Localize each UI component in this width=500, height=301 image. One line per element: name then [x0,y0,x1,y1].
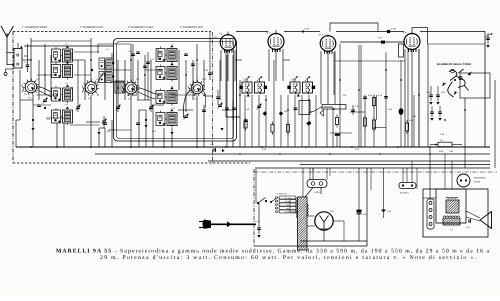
svg-text:L-9: L-9 [171,85,174,88]
svg-text:L-6: L-6 [106,64,109,67]
svg-text:C-35: C-35 [388,108,392,111]
svg-text:L-7: L-7 [171,43,174,46]
svg-text:C-10: C-10 [128,50,132,53]
svg-text:MOTORINO: MOTORINO [474,177,486,180]
svg-text:C-12: C-12 [150,58,154,61]
svg-text:C-30: C-30 [204,69,208,72]
svg-text:C-4: C-4 [47,118,50,121]
svg-text:V-1: V-1 [219,33,223,36]
svg-text:C-13: C-13 [202,78,206,81]
svg-text:R-1: R-1 [440,139,443,142]
svg-text:S.VOL.1 MN: S.VOL.1 MN [324,106,334,109]
svg-text:C-14: C-14 [255,220,259,223]
svg-text:FUSO: FUSO [314,191,320,194]
svg-text:R-16: R-16 [409,119,413,122]
svg-text:L-1: L-1 [65,43,68,46]
svg-text:C-45: C-45 [466,226,470,229]
svg-text:3° ELEMENTO FUSO: 3° ELEMENTO FUSO [128,26,153,29]
svg-text:C-31: C-31 [355,148,359,151]
svg-text:1° ELEMENTO POST.: 1° ELEMENTO POST. [22,26,48,29]
svg-text:2° ELEMENTO ACC.: 2° ELEMENTO ACC. [80,26,104,29]
svg-text:C-6: C-6 [96,78,99,81]
svg-text:V-2: V-2 [267,32,271,35]
svg-text:29 m. Potenza d'uscita: 3 watt: 29 m. Potenza d'uscita: 3 watt. Consumo:… [100,255,477,261]
svg-text:V-3: V-3 [319,34,323,37]
svg-text:S-1: S-1 [24,93,27,96]
svg-text:C-40: C-40 [362,213,366,216]
svg-text:C-21: C-21 [210,143,214,146]
svg-text:C-8: C-8 [107,130,110,133]
svg-text:C-23: C-23 [262,148,266,151]
svg-text:V-4: V-4 [403,32,407,35]
svg-text:C-1: C-1 [24,61,27,64]
svg-text:MARELLI 9A 55 - Supereterodina: MARELLI 9A 55 - Supereterodina a gamma o… [56,249,489,255]
svg-text:C-30: C-30 [440,133,444,136]
svg-text:C-50: C-50 [449,150,453,153]
svg-text:L-8: L-8 [171,60,174,63]
svg-text:R-6: R-6 [246,108,249,111]
svg-text:FONO: FONO [474,181,480,184]
svg-text:L-10: L-10 [171,107,175,110]
svg-text:C-33: C-33 [355,105,359,108]
svg-text:L-5: L-5 [106,48,109,51]
svg-text:R-22: R-22 [439,150,443,153]
svg-text:C-2: C-2 [36,78,39,81]
svg-text:C-11: C-11 [152,130,156,133]
svg-text:R-8: R-8 [284,110,287,113]
svg-text:R-12: R-12 [368,94,372,97]
svg-text:L-2: L-2 [65,60,68,63]
svg-text:R-13: R-13 [378,94,382,97]
svg-text:C.PRS-140: C.PRS-140 [277,193,287,196]
svg-text:L-4: L-4 [65,103,68,106]
svg-text:R-10: R-10 [308,111,312,114]
svg-text:C-9: C-9 [136,78,139,81]
svg-text:R-9: R-9 [343,94,346,97]
svg-text:C-31: C-31 [213,36,217,39]
svg-text:C-43: C-43 [387,210,391,213]
svg-text:4° ELEMENTO ANT.: 4° ELEMENTO ANT. [180,26,204,29]
svg-text:C-37: C-37 [378,37,382,40]
svg-text:ALTOP. A: ALTOP. A [400,192,409,195]
svg-text:L-3: L-3 [65,82,68,85]
svg-text:C-53: C-53 [441,91,445,94]
svg-text:R-16: R-16 [412,115,416,118]
svg-text:ELEMENTI 52mm TOND: ELEMENTI 52mm TOND [437,63,471,66]
